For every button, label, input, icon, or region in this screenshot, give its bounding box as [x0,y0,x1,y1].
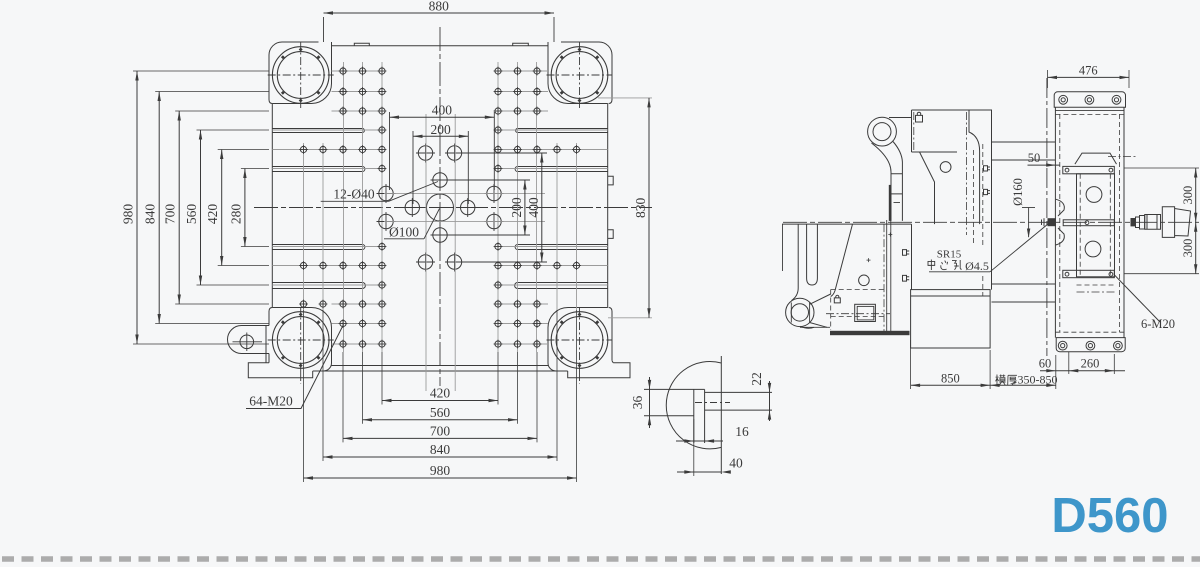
mold circle lower [1085,241,1101,257]
mold circle upper [1086,187,1102,203]
dim 476 ext [1047,70,1049,88]
T-slot right y285 [515,283,608,289]
grid row line y323.5 [332,323,383,325]
tie-bar hole bottom-left [268,307,334,373]
mold chamfer chain [1108,156,1136,158]
clamp base top edge [782,223,912,225]
moving platen circle [940,162,951,173]
clamp nut block [855,304,876,321]
svg-text:60: 60 [1039,357,1052,371]
fixed platen top cap [1054,92,1125,107]
clamp T-bolt upper [903,250,910,256]
dim 400 extension lines [389,112,391,190]
moving platen inner profile [969,110,980,224]
tie-bar hole top-right [547,42,613,108]
grid row line y149.5 [272,149,382,151]
detail center dashes [695,402,730,404]
mold center bar [1063,220,1114,226]
dim 50 side [1028,164,1061,166]
fixed platen bottom dash [1055,331,1124,333]
grid row line y265.5 [272,265,382,267]
clamp body slant [831,224,853,296]
leader 6-M20 [1114,275,1160,322]
svg-text:420: 420 [430,386,451,401]
boss inner corner bottom-right [548,308,608,372]
dim 476 [1048,76,1130,78]
dim 560 left [200,130,202,285]
dim 200 vertical [524,180,526,235]
dim 850 [911,384,991,386]
mold top bar [1063,166,1115,173]
svg-text:830: 830 [633,197,648,218]
fixed platen top line [1055,110,1124,112]
clamp T-bolt lower [903,275,910,281]
dim 420 left [221,150,223,266]
nozzle flange [1162,207,1190,238]
dim 300 ext [1124,167,1199,169]
grid row line y304 [332,303,383,305]
moving platen lock symbol [916,112,923,122]
toggle eye clevis lines [790,303,792,323]
clamp body circle [859,275,870,286]
grid row line y91.5 [332,91,383,93]
moving platen face T-bolt upper [984,166,991,171]
clamp right edges [886,220,888,331]
left lug inner line [265,326,267,354]
dim 830 [648,98,650,318]
svg-text:SR15: SR15 [937,249,962,261]
dim 980 bottom [304,477,577,479]
dim 200 vert extension lines [446,179,530,181]
grid row line y168.5 [272,168,382,170]
grid row line y285 [272,284,382,286]
T-slot left y130 [272,129,364,133]
dim 280 left [244,169,246,247]
side view horizontal center line [783,221,1199,223]
toggle eye lower links [800,294,831,328]
platen front view outer boss outline [269,42,612,363]
svg-text:Ø100: Ø100 [389,225,419,240]
svg-text:300: 300 [1181,239,1195,258]
dim 420 bottom ext [381,352,383,405]
detail neck top [705,391,772,393]
moving platen chain small [913,112,915,152]
dim 980 left ext [133,70,269,72]
svg-text:50: 50 [1028,151,1041,165]
dim 420 bottom [382,400,498,402]
dim 840 left ext [155,91,269,93]
svg-text:D560: D560 [1051,489,1168,543]
dim 280 left ext [241,168,269,170]
piston column [891,162,902,221]
label zhongxinkong [928,259,989,273]
right edge tab lower [608,230,614,239]
fixed platen hidden lines [1059,114,1061,332]
dim 880 extension lines [323,17,325,42]
detail neck bottom [705,409,772,411]
moving platen hidden line [973,150,975,245]
dim 700 bottom [343,437,537,439]
moving platen foot inner [911,295,991,297]
boss inner corner bottom-left [272,308,331,372]
detail neck step [704,389,706,443]
bottom dashed strip [2,556,1200,562]
clamp base left wall [782,224,784,271]
dim 560 bottom ext [362,352,364,424]
svg-text:980: 980 [121,204,136,225]
mold bottom dash [1077,284,1115,286]
svg-text:64-M20: 64-M20 [249,394,293,409]
grid col line x303.5 [303,143,305,310]
dim 840 bottom [323,456,557,458]
dim 260 ext [1113,354,1115,374]
grid row line y71 [332,70,383,72]
T-slot left y285 [272,283,365,289]
svg-text:300: 300 [1181,186,1195,205]
grid row line y344 [332,343,383,345]
toggle upper links [872,118,912,173]
svg-text:840: 840 [430,442,451,457]
dim 980 bottom ext [303,310,305,482]
bottom-right tie-bar centerline ext [579,373,581,384]
boss inner corner top-left [272,42,331,104]
grid col line x517.5 [517,62,519,352]
grid col line x576.5 [576,143,578,310]
clamp center mark 2 [888,234,892,236]
clamp lock symbol [834,295,840,303]
svg-text:6-M20: 6-M20 [1141,317,1175,331]
platen main right edge [607,104,609,308]
ring construction horizontal lower [384,221,545,223]
dim 36 detail [649,377,651,428]
ring construction vertical right [454,114,456,391]
svg-text:Ø160: Ø160 [1011,178,1025,206]
dim 850 ext [910,340,912,389]
dim 60 ext [1068,352,1070,374]
right edge tab upper [608,176,614,185]
T-slot left y168.5 [272,167,365,172]
leader 12-dia40 [389,182,438,202]
svg-text:560: 560 [430,405,451,420]
dim 16 detail [676,440,723,442]
moving platen top-left step [912,152,958,224]
dim 700 bottom ext [342,352,344,442]
T-slot right y168.5 [515,167,608,172]
svg-text:840: 840 [143,204,158,225]
top edge notch right [513,43,529,46]
underline 12-dia40 [321,200,389,202]
sprue seat curves [1056,199,1065,245]
clamp chain v [883,224,885,332]
dim 40 detail [677,471,721,473]
right foot [568,361,630,378]
label mohou [996,373,1058,387]
dim 400 vertical [541,153,543,262]
clamp bottom lines [800,326,830,328]
nozzle body [1145,215,1161,230]
grid row line y111 [332,110,383,112]
dim 22 detail [769,381,771,421]
svg-text:16: 16 [735,424,749,439]
grid col line x323 [322,143,324,310]
M20 tapped hole grid (64-M20) [299,67,581,349]
svg-text:12-Ø40: 12-Ø40 [333,187,374,202]
bolt circle 12-dia40 holes [377,144,504,272]
tie-bar hole bottom-right [547,307,613,373]
tie-bar hole top-left [268,42,334,108]
dim 300 lower [1195,222,1197,273]
nozzle tip dark [1131,218,1136,226]
svg-text:476: 476 [1079,64,1098,78]
moving platen hidden line2 [982,144,984,245]
detail face chord [720,356,722,474]
moving platen face T-bolt lower [984,189,991,194]
grid col line x498.0 [497,62,499,352]
dim 260 [1069,370,1125,372]
svg-text:Ø4.5: Ø4.5 [965,259,989,273]
dim 880 [324,12,555,14]
svg-text:350-850: 350-850 [1018,373,1058,387]
detail arc [666,362,721,449]
grid col line x557.0 [556,143,558,310]
dim 980 left [136,71,138,344]
leader SR15 [929,271,990,273]
mold body [1077,174,1115,277]
grid row line y130 [272,129,382,131]
dim 300 upper [1195,168,1197,222]
fixed platen body [1055,107,1124,337]
dim 400 top [390,116,495,118]
grid col line x382 [381,62,383,352]
leader 64-M20 [246,325,344,409]
grid col line x343.5 [343,62,345,352]
mold chamfer trapezoid [1075,153,1117,164]
clamp hidden rect [831,289,886,291]
side view vertical chain line [1046,78,1048,356]
dim 200 top [413,135,468,137]
dim 840 bottom ext [322,310,324,461]
tie bar top [992,141,1056,143]
left lug hole [240,335,254,349]
mold hidden lines [1079,174,1081,277]
T-slot left y246.5 [272,245,365,250]
fixed platen top cap bolts [1059,95,1068,104]
detail slot left wall [693,389,695,443]
platen main top edge [332,45,549,47]
clamp center mark 1 [867,259,871,261]
svg-text:700: 700 [163,204,178,225]
clamp chain h [826,313,890,315]
underline dia100 [384,238,424,240]
boss inner corner top-right [548,42,608,104]
bottom edge between feet [313,370,568,372]
piston column tick [894,202,901,204]
svg-text:22: 22 [749,372,764,386]
grid col line x362.5 [362,62,364,352]
clamp body left edge [792,224,799,300]
svg-text:420: 420 [205,204,220,225]
svg-text:400: 400 [526,197,541,218]
detail slot top [644,388,705,390]
fixed platen top dash [1055,114,1124,116]
center hole dia100 [427,194,454,221]
svg-text:36: 36 [630,396,645,410]
mold bottom bar [1063,270,1115,277]
svg-text:700: 700 [430,423,451,438]
left lug ear [228,326,270,354]
svg-text:850: 850 [941,372,960,386]
fixed platen bottom cap bolts [1058,341,1067,350]
dim 700 left ext [175,110,269,112]
dim 840 left [158,92,160,324]
T-slot right y130 [516,129,608,133]
T-slot right y246.5 [515,245,608,250]
clamp slot channel [807,224,818,285]
vertical center line [439,27,441,386]
svg-text:560: 560 [184,204,199,225]
top edge notch left [354,43,369,46]
svg-text:880: 880 [429,0,450,14]
toggle eye lower [786,298,814,326]
dim 400 vert extension lines [460,152,547,154]
svg-text:200: 200 [431,122,452,137]
moving platen foot [911,290,991,348]
dim 60 [1040,370,1069,372]
ring construction horizontal upper [384,192,545,194]
left foot [248,354,312,378]
dim 700 left [178,111,180,304]
toggle eye upper [868,117,897,146]
svg-text:400: 400 [432,103,453,118]
horizontal center line [254,207,652,209]
dim 200 extension lines [412,131,414,204]
detail slot bottom [644,415,694,417]
platen main left edge [271,104,273,308]
dim 560 left ext [197,129,270,131]
svg-text:280: 280 [228,204,243,225]
moving platen outline [912,110,992,290]
dim mold thickness line [990,384,1056,386]
piston column dark edge [889,185,891,221]
bottom-left tie-bar centerline ext [300,373,302,384]
svg-text:40: 40 [729,456,743,471]
sprue bush dark [1048,218,1057,226]
svg-text:980: 980 [430,463,451,478]
dim 830 extension lines [598,97,652,99]
fixed platen bottom cap [1056,338,1125,352]
platen main bottom edge [332,365,549,367]
svg-text:200: 200 [509,197,524,218]
moving platen chain mid [965,112,967,235]
leader dia100 [424,209,440,239]
tie bar bottom [992,283,1056,285]
ring construction vertical left [425,114,427,391]
grid col line x536.5 [536,62,538,352]
dim 560 bottom [363,419,518,421]
dim 420 left ext [218,149,269,151]
grid row line y246.5 [272,246,382,248]
svg-text:260: 260 [1081,357,1100,371]
